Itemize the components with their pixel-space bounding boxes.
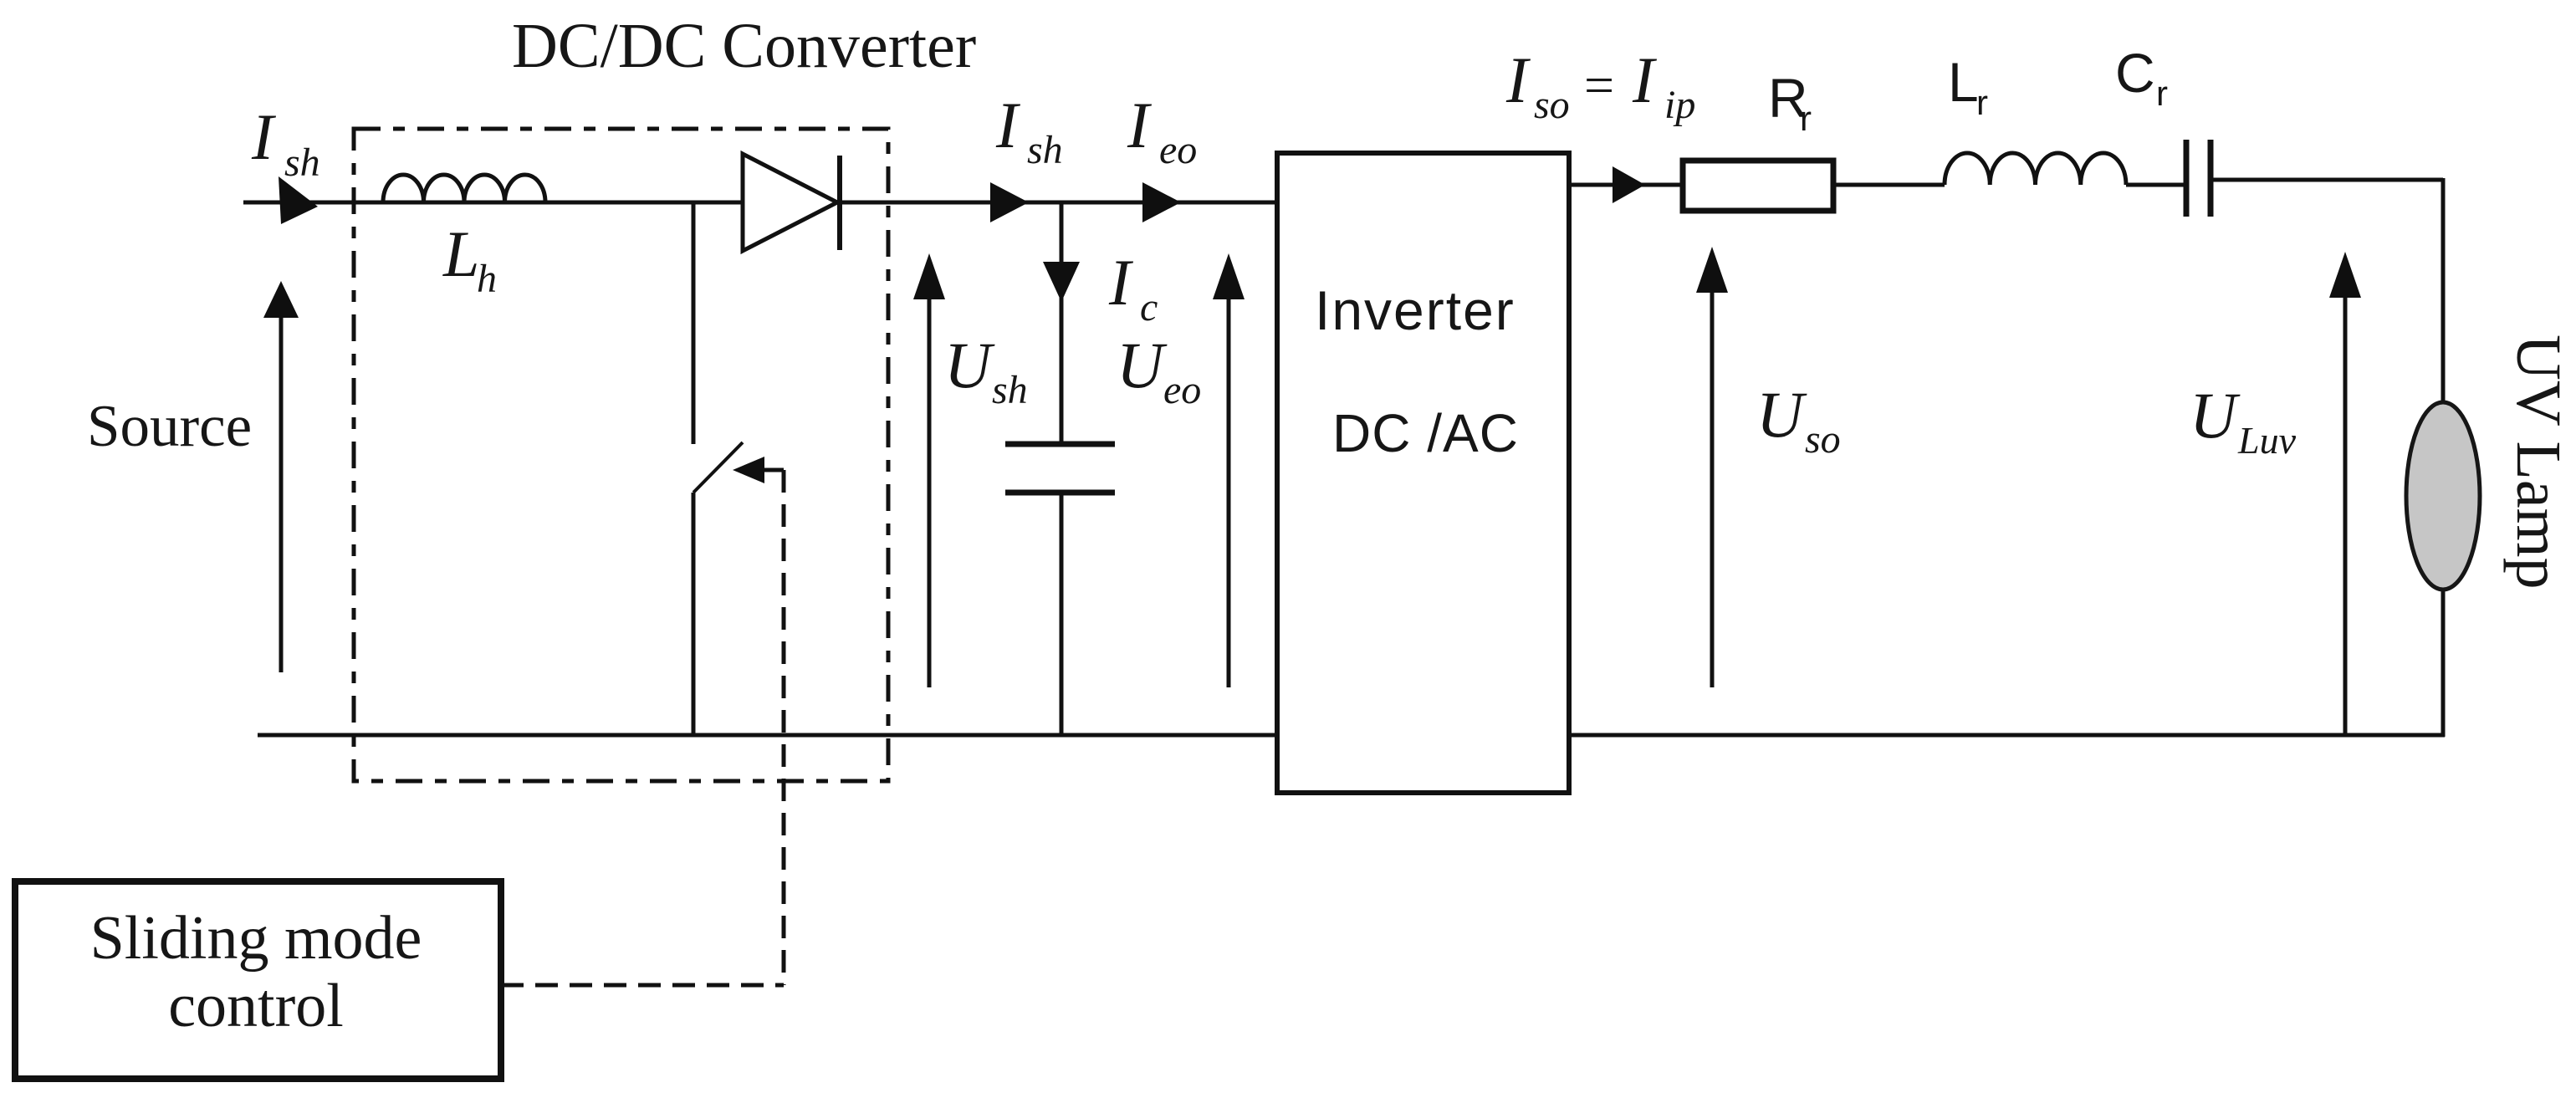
capacitor C top plate (1005, 442, 1115, 447)
inductor Lr (1945, 153, 2126, 185)
svg-text:r: r (2156, 74, 2168, 113)
svg-text:UV Lamp: UV Lamp (2503, 335, 2573, 590)
arrow Ueo head (1213, 253, 1245, 299)
svg-text:I: I (251, 100, 277, 173)
dashed control line horizontal (501, 983, 784, 988)
svg-text:I: I (995, 89, 1021, 161)
wire switch branch vertical (692, 202, 696, 444)
svg-text:L: L (442, 217, 479, 290)
svg-text:r: r (1800, 99, 1812, 138)
wire bottom left segment (258, 733, 1276, 738)
arrow Ueo line (1227, 276, 1231, 687)
svg-text:U: U (944, 329, 995, 401)
arrow Ic head down (1043, 262, 1080, 302)
svg-text:I: I (1505, 43, 1531, 116)
wire inverter output (1569, 183, 1683, 187)
diode D triangle (743, 154, 837, 251)
svg-text:r: r (1976, 83, 1988, 122)
svg-text:control: control (168, 972, 344, 1040)
capacitor Cr right plate (2208, 140, 2214, 217)
svg-text:Sliding mode: Sliding mode (90, 904, 422, 973)
svg-text:sh: sh (284, 140, 320, 185)
svg-text:I: I (1127, 89, 1153, 161)
svg-text:U: U (2190, 379, 2241, 452)
arrow Uso line (1710, 276, 1715, 687)
svg-text:DC/DC Converter: DC/DC Converter (512, 11, 976, 81)
svg-text:L: L (1948, 51, 1979, 113)
svg-text:DC /AC: DC /AC (1332, 403, 1519, 463)
arrow Ish head (mid) (990, 182, 1029, 222)
arrow Ush line (928, 276, 932, 687)
svg-text:U: U (1117, 329, 1168, 401)
wire lamp to bottom (2441, 588, 2446, 737)
inductor Lh (383, 175, 545, 202)
arrow Ieo head (1142, 182, 1181, 222)
svg-text:sh: sh (992, 368, 1028, 412)
svg-text:=: = (1584, 55, 1614, 115)
inverter box (1277, 153, 1569, 793)
wire main top right of diode (837, 201, 1276, 205)
svg-text:eo: eo (1159, 128, 1197, 172)
arrow Ish head (source side) (279, 176, 318, 224)
arrow Source line (279, 301, 284, 672)
dashed box DC/DC converter (354, 129, 888, 781)
svg-text:I: I (1632, 43, 1658, 116)
arrow Uso head (1696, 247, 1728, 293)
arrow switch control head (733, 457, 764, 483)
wire capacitor branch vertical top (1060, 202, 1064, 442)
resistor Rr box (1683, 161, 1833, 211)
wire corner down to lamp (2441, 178, 2446, 404)
switch blade (693, 442, 743, 493)
UV lamp ellipse (2406, 402, 2480, 590)
capacitor Cr left plate (2184, 140, 2190, 217)
svg-text:h: h (477, 257, 497, 301)
wire Cr to corner (2211, 178, 2443, 182)
svg-text:Inverter: Inverter (1315, 279, 1515, 341)
wire capacitor branch vertical bottom (1060, 493, 1064, 737)
arrow ULuv head (2329, 252, 2361, 298)
diode cathode bar (837, 156, 842, 250)
wire resistor to inductor (1833, 183, 1945, 187)
arrow Iso head (1613, 166, 1645, 203)
svg-text:Source: Source (87, 394, 252, 459)
wire switch lower terminal (692, 493, 696, 737)
svg-text:eo: eo (1163, 368, 1201, 412)
arrow ULuv line (2343, 276, 2348, 735)
svg-text:U: U (1756, 378, 1807, 451)
wire main top left (243, 201, 743, 205)
svg-text:so: so (1805, 417, 1841, 462)
svg-text:sh: sh (1027, 128, 1063, 172)
svg-text:I: I (1108, 246, 1134, 319)
svg-text:C: C (2115, 42, 2155, 104)
arrow Ush head (913, 253, 945, 299)
wire inductor to capacitor Cr (2126, 183, 2186, 187)
svg-text:c: c (1140, 285, 1158, 329)
svg-text:ip: ip (1664, 83, 1695, 127)
wire bottom right segment (1569, 733, 2445, 738)
svg-text:Luv: Luv (2237, 419, 2297, 462)
dashed control line vertical (782, 470, 786, 985)
svg-text:so: so (1534, 83, 1570, 127)
capacitor C bottom plate (1005, 490, 1115, 496)
arrow Source head (263, 281, 299, 318)
sliding mode control box (15, 881, 501, 1079)
switch control arrow shaft (759, 468, 784, 472)
